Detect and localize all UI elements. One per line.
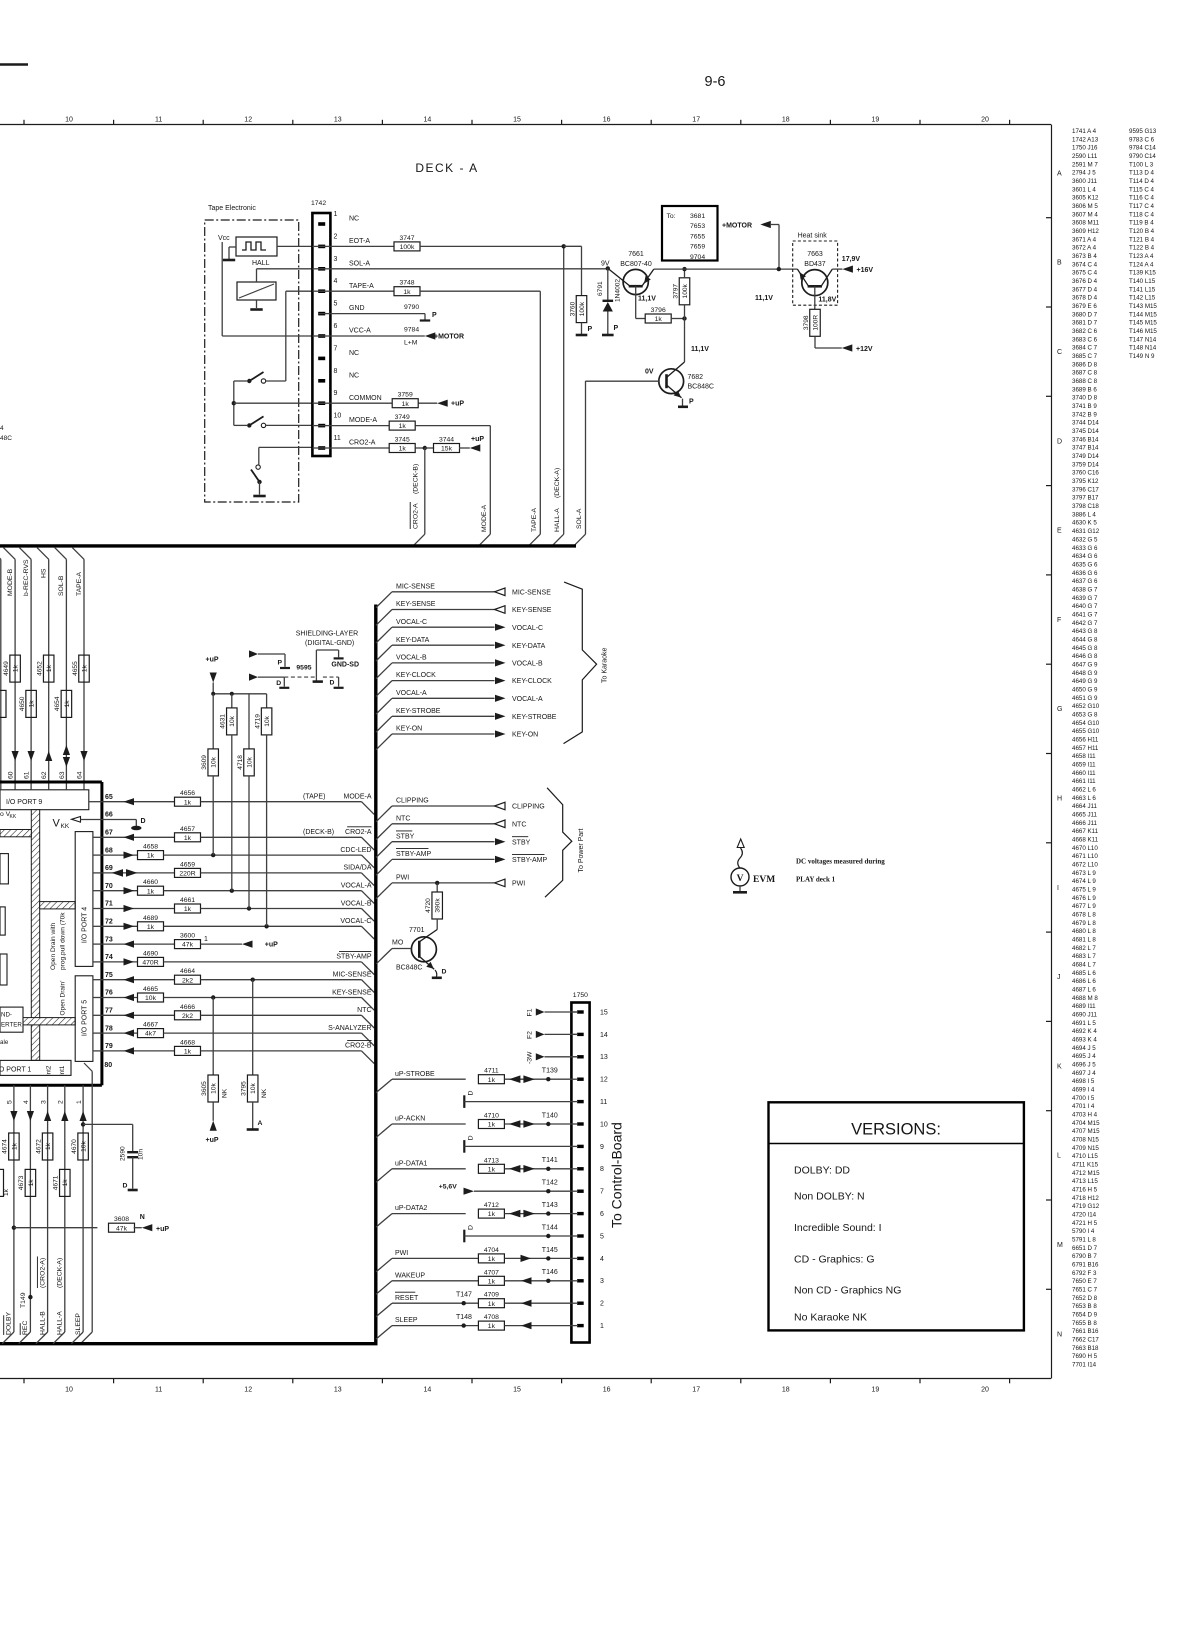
svg-text:10k: 10k [81, 1140, 88, 1151]
svg-text:4684 L 7: 4684 L 7 [1072, 962, 1096, 969]
svg-text:Incredible Sound: I: Incredible Sound: I [794, 1222, 882, 1234]
svg-text:T117 C 4: T117 C 4 [1129, 203, 1155, 210]
svg-text:3684 C 7: 3684 C 7 [1072, 345, 1098, 352]
svg-text:1k: 1k [488, 1166, 496, 1173]
svg-text:P: P [588, 326, 593, 333]
svg-text:3749 D14: 3749 D14 [1072, 453, 1099, 460]
svg-text:NK: NK [222, 1088, 229, 1098]
svg-text:ND-: ND- [1, 1012, 12, 1019]
svg-text:N: N [140, 1214, 145, 1221]
svg-text:1k: 1k [399, 423, 407, 430]
svg-text:3747: 3747 [399, 235, 414, 242]
svg-text:7661: 7661 [628, 251, 644, 258]
pin 67 interior stub [93, 836, 102, 838]
svg-text:T148: T148 [456, 1314, 472, 1321]
svg-text:TAPE-A: TAPE-A [349, 283, 374, 290]
svg-text:3747 B14: 3747 B14 [1072, 445, 1099, 452]
resistor 4667 on pin 78 [102, 1022, 164, 1038]
svg-text:P: P [614, 325, 619, 332]
svg-text:4710: 4710 [484, 1113, 499, 1120]
svg-text:PWI: PWI [512, 881, 525, 888]
svg-text:11: 11 [334, 435, 341, 442]
signal WAKEUP with resistor 4707 [376, 1269, 571, 1294]
arrow on b-REC-RVS [28, 751, 35, 761]
cut internal block 2 [0, 907, 5, 935]
svg-text:4690: 4690 [143, 950, 158, 957]
svg-text:COMMON: COMMON [349, 395, 382, 402]
pin 80 vertical already drawn; sixth wire handled above [0, 0, 1, 1]
svg-text:B: B [1057, 260, 1062, 267]
relay solenoid [237, 282, 276, 310]
resistor 4658 on pin 68 [102, 844, 164, 860]
svg-text:4720: 4720 [425, 898, 432, 913]
svg-text:T100 L 3: T100 L 3 [1129, 161, 1154, 168]
svg-text:1k: 1k [64, 700, 71, 708]
svg-text:3748: 3748 [399, 280, 414, 287]
svg-text:4656: 4656 [180, 790, 195, 797]
wire pin 67 to bus / label [201, 827, 375, 850]
svg-text:Open Drain with: Open Drain with [50, 922, 57, 970]
7701 emitter ground D [432, 969, 447, 978]
svg-text:3759 D14: 3759 D14 [1072, 461, 1099, 468]
wire EOT-A to 3760 [564, 246, 582, 295]
wire 7663 base to 3798 [814, 286, 816, 309]
svg-text:11,1V: 11,1V [638, 296, 656, 303]
svg-text:66: 66 [105, 812, 113, 819]
svg-text:7663: 7663 [807, 251, 823, 258]
resistor 4674 [2, 1133, 20, 1160]
svg-text:D: D [123, 1183, 128, 1190]
svg-text:1k: 1k [147, 924, 155, 931]
svg-text:9784 C14: 9784 C14 [1129, 145, 1156, 152]
svg-text:PWI: PWI [395, 1250, 408, 1257]
wire motor rail [654, 268, 798, 270]
wire pin 65 to bus / label [201, 794, 375, 815]
svg-text:4692 K 4: 4692 K 4 [1072, 1028, 1097, 1035]
svg-text:69: 69 [105, 865, 113, 872]
net label HALL-A [57, 1311, 64, 1335]
svg-text:3687 C 8: 3687 C 8 [1072, 370, 1098, 377]
junction SLEEP / RC [81, 1122, 85, 1126]
svg-text:1k: 1k [488, 1256, 496, 1263]
svg-text:3795: 3795 [240, 1081, 247, 1096]
svg-text:9595: 9595 [296, 665, 311, 672]
+16V arrow [832, 266, 873, 275]
svg-text:10k: 10k [145, 995, 157, 1002]
svg-text:KEY-SENSE: KEY-SENSE [396, 601, 436, 608]
svg-text:4698 I 5: 4698 I 5 [1072, 1078, 1095, 1085]
svg-text:4687 L 6: 4687 L 6 [1072, 987, 1096, 994]
svg-text:3606 M 5: 3606 M 5 [1072, 203, 1098, 210]
svg-text:VOCAL-C: VOCAL-C [512, 625, 543, 632]
resistor 3759 to +uP [330, 392, 464, 408]
svg-text:8: 8 [334, 368, 338, 375]
svg-text:3797: 3797 [672, 284, 679, 299]
svg-text:15: 15 [513, 1387, 521, 1394]
signal VOCAL-B to karaoke [376, 655, 543, 679]
label Open Drain' [60, 981, 67, 1016]
svg-text:4691 L 5: 4691 L 5 [1072, 1020, 1096, 1027]
svg-text:47k: 47k [116, 1225, 128, 1232]
arrow pin 67 [124, 834, 135, 841]
resistor cut on cut wire [0, 690, 6, 717]
svg-text:uP-DATA2: uP-DATA2 [395, 1205, 428, 1212]
svg-text:K: K [1057, 1063, 1062, 1070]
resistor 4655 on TAPE-A [72, 655, 90, 682]
svg-text:4712: 4712 [484, 1202, 499, 1209]
svg-text:4658 I11: 4658 I11 [1072, 753, 1096, 760]
net label (DECK-A) [57, 1258, 64, 1288]
svg-text:I: I [1057, 885, 1059, 892]
cut internal block 1 [0, 854, 8, 884]
svg-text:4635 G 6: 4635 G 6 [1072, 561, 1098, 568]
pin 66 wire to D stub [102, 818, 146, 830]
resistor 4657 on pin 67 [102, 826, 201, 842]
wire pin 68 to bus / label [164, 847, 375, 868]
svg-text:KEY-CLOCK: KEY-CLOCK [512, 678, 552, 685]
svg-text:I/O PORT 9: I/O PORT 9 [6, 799, 42, 806]
svg-text:100R: 100R [812, 315, 819, 331]
svg-text:BC848C: BC848C [396, 965, 422, 972]
signal F1 to pin 15 [527, 1008, 578, 1016]
svg-text:15: 15 [513, 117, 521, 124]
svg-text:4656 H11: 4656 H11 [1072, 736, 1099, 743]
+MOTOR feed arrow [722, 221, 779, 269]
svg-text:4713 L15: 4713 L15 [1072, 1178, 1098, 1185]
svg-text:4659 I11: 4659 I11 [1072, 761, 1096, 768]
svg-text:VOCAL-A: VOCAL-A [341, 883, 372, 890]
svg-text:Tape Electronic: Tape Electronic [208, 205, 256, 212]
svg-text:4716 H 5: 4716 H 5 [1072, 1187, 1098, 1194]
7682 emitter ground P [678, 399, 694, 407]
svg-text:3683 C 6: 3683 C 6 [1072, 336, 1098, 343]
junction pin 75 / 3795 [251, 978, 255, 982]
svg-text:4643 G 8: 4643 G 8 [1072, 628, 1098, 635]
svg-text:1: 1 [334, 211, 338, 218]
wire hall output to pin 2 EOT-A [277, 245, 312, 247]
svg-text:3607 M 4: 3607 M 4 [1072, 211, 1098, 218]
pin 74 interior stub [93, 961, 102, 963]
svg-text:390k: 390k [435, 898, 442, 913]
resistor 4689 on pin 72 [102, 915, 164, 931]
svg-text:HALL-A: HALL-A [554, 508, 561, 532]
wire Vcc to pin 6 VCC-A [222, 242, 312, 336]
svg-text:T122 B 4: T122 B 4 [1129, 245, 1155, 252]
svg-text:4649: 4649 [3, 661, 10, 676]
svg-text:4631: 4631 [220, 714, 227, 729]
svg-text:SHIELDING-LAYER: SHIELDING-LAYER [296, 631, 359, 638]
svg-text:Heat sink: Heat sink [798, 233, 828, 240]
arrow on pin 4 [27, 1111, 34, 1121]
title DECK - A [415, 161, 478, 175]
resistor 3608 to +uP [12, 1214, 170, 1233]
svg-text:1k: 1k [29, 700, 36, 708]
svg-text:4695 J 4: 4695 J 4 [1072, 1053, 1096, 1060]
svg-text:4677 L 9: 4677 L 9 [1072, 903, 1096, 910]
fragment text o VKK [0, 811, 17, 820]
svg-text:4670: 4670 [71, 1139, 78, 1154]
svg-text:CRO2-A: CRO2-A [413, 503, 420, 529]
svg-text:MODE-A: MODE-A [344, 794, 372, 801]
arrow pin 65 [124, 798, 135, 805]
wire pin 78 to bus / label [164, 1025, 375, 1046]
label To Control-Board [609, 1122, 625, 1228]
I/O PORT 9 box [0, 790, 89, 810]
svg-text:TAPE-A: TAPE-A [531, 507, 538, 532]
svg-text:4682 L 7: 4682 L 7 [1072, 945, 1096, 952]
svg-text:1: 1 [76, 1100, 83, 1104]
svg-text:67: 67 [105, 830, 113, 837]
signal +5.6V to pin 7 [439, 1180, 572, 1195]
svg-text:10k: 10k [211, 756, 218, 767]
svg-text:4708: 4708 [484, 1314, 499, 1321]
svg-text:1k: 1k [147, 853, 155, 860]
svg-text:1k: 1k [488, 1211, 496, 1218]
svg-text:VCC-A: VCC-A [349, 328, 371, 335]
svg-text:CLIPPING: CLIPPING [396, 798, 429, 805]
svg-text:+uP: +uP [471, 436, 484, 443]
bus top horizontal [0, 544, 576, 547]
svg-text:1k: 1k [488, 1077, 496, 1084]
signal uP-DATA2 with resistor 4712 [376, 1202, 571, 1227]
svg-text:+uP: +uP [206, 1137, 219, 1144]
svg-text:STBY-AMP: STBY-AMP [336, 954, 371, 961]
svg-text:3675 C 4: 3675 C 4 [1072, 270, 1098, 277]
svg-text:4680 L 8: 4680 L 8 [1072, 928, 1096, 935]
pin 75 interior stub [93, 979, 102, 981]
wire pin 3 SOL-A to relay [257, 269, 313, 282]
svg-text:3609: 3609 [201, 755, 208, 770]
To Karaoke bracket [564, 582, 609, 744]
svg-text:KEY-SENSE: KEY-SENSE [512, 607, 552, 614]
svg-text:2: 2 [600, 1301, 604, 1308]
hall sensor HALL [218, 235, 277, 267]
svg-text:T140 L15: T140 L15 [1129, 278, 1156, 285]
signal STBY-AMP to power part [376, 849, 547, 876]
connector 1750 internal wire segments [571, 1012, 578, 1326]
junction CRO2-A node [423, 446, 427, 450]
note DC voltages measured during PLAY deck 1 [796, 858, 885, 884]
svg-text:4685 L 6: 4685 L 6 [1072, 970, 1096, 977]
svg-text:KEY-CLOCK: KEY-CLOCK [396, 672, 436, 679]
svg-text:7662 C17: 7662 C17 [1072, 1337, 1099, 1344]
svg-text:72: 72 [105, 919, 113, 926]
arrow pin 69 [112, 869, 138, 877]
svg-text:6791 B16: 6791 B16 [1072, 1262, 1099, 1269]
svg-text:4707: 4707 [484, 1269, 499, 1276]
voltage 11,8V [818, 297, 836, 304]
svg-text:4718 H12: 4718 H12 [1072, 1195, 1099, 1202]
pin 66 number [105, 812, 113, 819]
svg-text:VOCAL-B: VOCAL-B [341, 900, 372, 907]
svg-text:KEY-DATA: KEY-DATA [396, 637, 430, 644]
jumper 9784 to +MOTOR [330, 327, 464, 347]
svg-text:4711: 4711 [484, 1068, 499, 1075]
svg-text:1k: 1k [184, 1049, 192, 1056]
svg-text:4646 G 8: 4646 G 8 [1072, 653, 1098, 660]
svg-text:BD437: BD437 [804, 261, 826, 268]
svg-text:17: 17 [692, 1387, 700, 1394]
svg-text:T147: T147 [456, 1292, 472, 1299]
svg-text:2794 J 5: 2794 J 5 [1072, 170, 1096, 177]
svg-text:3674 C 4: 3674 C 4 [1072, 261, 1098, 268]
resistor 4649 on MODE-B [3, 655, 21, 682]
svg-text:GND-SD: GND-SD [331, 662, 359, 669]
svg-text:1k: 1k [184, 835, 192, 842]
voltage 11,1V at 7682 collector [691, 346, 709, 353]
svg-text:19: 19 [872, 1387, 880, 1394]
junction PWI / 4720 [435, 881, 439, 885]
svg-text:+16V: +16V [857, 267, 874, 274]
svg-text:17,9V: 17,9V [842, 256, 861, 263]
svg-text:C: C [1057, 349, 1062, 356]
svg-text:uP-ACKN: uP-ACKN [395, 1116, 425, 1123]
resistor 4670 [71, 1133, 89, 1160]
svg-text:9595 G13: 9595 G13 [1129, 128, 1157, 135]
svg-text:3: 3 [334, 256, 338, 263]
svg-text:1750: 1750 [573, 992, 588, 999]
svg-text:3685 C 7: 3685 C 7 [1072, 353, 1098, 360]
resistor 4672 [35, 1133, 53, 1160]
svg-text:F1: F1 [527, 1008, 534, 1016]
svg-text:4719 G12: 4719 G12 [1072, 1203, 1100, 1210]
svg-text:4689 I11: 4689 I11 [1072, 1003, 1096, 1010]
shield link 9595 [284, 650, 359, 682]
svg-text:Vcc: Vcc [218, 235, 230, 242]
svg-text:4696 J 5: 4696 J 5 [1072, 1062, 1096, 1069]
junction 9V node [606, 266, 610, 270]
svg-text:14: 14 [424, 117, 432, 124]
pin 79 interior stub [93, 1050, 102, 1052]
svg-text:3671 A 4: 3671 A 4 [1072, 236, 1097, 243]
svg-text:5: 5 [7, 1100, 14, 1104]
svg-text:3745 D14: 3745 D14 [1072, 428, 1099, 435]
svg-text:MIC-SENSE: MIC-SENSE [333, 972, 372, 979]
svg-text:9: 9 [600, 1144, 604, 1151]
svg-text:4672: 4672 [35, 1139, 42, 1154]
svg-text:7655 B 8: 7655 B 8 [1072, 1320, 1097, 1327]
pin number 60 [8, 771, 15, 779]
svg-text:4700 I 5: 4700 I 5 [1072, 1095, 1095, 1102]
svg-text:1k: 1k [46, 664, 53, 672]
svg-text:CRO2-A: CRO2-A [345, 829, 372, 836]
svg-text:4640 G 7: 4640 G 7 [1072, 603, 1098, 610]
bus bottom horizontal [0, 1342, 378, 1345]
wire pin 73 to +uP [201, 936, 279, 949]
wire cut wire from bus to IC pin [0, 548, 1, 782]
svg-text:A: A [258, 1120, 263, 1127]
svg-text:12: 12 [244, 117, 252, 124]
svg-text:10: 10 [65, 117, 73, 124]
capacitor 2590 10n to D [83, 1124, 144, 1190]
svg-text:No Karaoke NK: No Karaoke NK [794, 1312, 867, 1324]
svg-text:15: 15 [600, 1009, 608, 1016]
svg-text:1k: 1k [3, 1188, 10, 1196]
svg-text:4720 I14: 4720 I14 [1072, 1212, 1097, 1219]
svg-text:1k: 1k [488, 1323, 496, 1330]
voltmeter EVM symbol [731, 839, 775, 892]
svg-text:P: P [432, 312, 437, 319]
resistor 3798 to +12V [803, 309, 873, 353]
VERSIONS table [769, 1102, 1024, 1330]
svg-text:10: 10 [334, 413, 342, 420]
svg-text:T144: T144 [542, 1224, 558, 1231]
signal uP-ACKN with resistor 4710 [376, 1112, 571, 1137]
svg-text:NTC: NTC [396, 815, 410, 822]
svg-text:4632 G 5: 4632 G 5 [1072, 536, 1098, 543]
signal CLIPPING to power part [376, 798, 545, 822]
resistor 4718 [237, 694, 255, 909]
svg-text:4694 J 5: 4694 J 5 [1072, 1045, 1096, 1052]
svg-text:E: E [1057, 528, 1062, 535]
svg-text:P: P [278, 660, 283, 667]
svg-text:1k: 1k [399, 446, 407, 453]
svg-text:4653 G 8: 4653 G 8 [1072, 711, 1098, 718]
svg-text:11: 11 [155, 1387, 162, 1394]
svg-text:CRO2-B: CRO2-B [345, 1043, 372, 1050]
svg-text:4637 G 6: 4637 G 6 [1072, 578, 1098, 585]
svg-text:1750 J16: 1750 J16 [1072, 145, 1098, 152]
svg-text:MO: MO [392, 940, 404, 947]
net label SLEEP [75, 1313, 82, 1335]
svg-text:4652 G10: 4652 G10 [1072, 703, 1100, 710]
IC pin stubs 60-64 inside [1, 784, 84, 790]
svg-text:KK: KK [61, 823, 70, 830]
svg-text:HALL-A: HALL-A [57, 1311, 64, 1335]
svg-text:DECK - A: DECK - A [415, 161, 478, 175]
signal STBY to power part [376, 831, 531, 858]
svg-text:100k: 100k [400, 244, 415, 251]
svg-text:4719: 4719 [254, 714, 261, 729]
pin 80 wire to bottom bus [81, 1062, 113, 1344]
wire pin 76 to bus / label [164, 989, 375, 1010]
svg-text:T141 L15: T141 L15 [1129, 286, 1156, 293]
hatched strip to I/O PORT 4 [40, 902, 75, 909]
arrow pin 71 [124, 905, 135, 912]
resistor 4665 on pin 76 [102, 986, 164, 1002]
wire TAPE-A from bus to IC pin 64 [72, 548, 84, 782]
svg-text:60: 60 [8, 771, 15, 779]
D stub pin 5 T144 [464, 1224, 571, 1242]
resistor 4666 on pin 77 [102, 1004, 201, 1020]
svg-text:1742 A13: 1742 A13 [1072, 136, 1099, 143]
svg-text:65: 65 [105, 794, 113, 801]
wire MODE-A to bus [479, 426, 491, 546]
transistor 7661 BC807-40 (PNP) [609, 251, 656, 303]
svg-text:+uP: +uP [206, 657, 219, 664]
svg-text:100k: 100k [682, 283, 689, 298]
svg-text:18: 18 [782, 1387, 790, 1394]
wire divider to 7682 collector [684, 319, 686, 363]
svg-text:BC807-40: BC807-40 [620, 261, 652, 268]
junction pin 76 / 3605 [211, 995, 215, 999]
svg-text:3601 L 4: 3601 L 4 [1072, 186, 1096, 193]
svg-text:T139: T139 [542, 1068, 558, 1075]
svg-text:3608 M11: 3608 M11 [1072, 220, 1100, 227]
svg-text:SOL-A: SOL-A [576, 508, 583, 529]
page number 9-6 [705, 74, 726, 90]
svg-text:4703 H 4: 4703 H 4 [1072, 1112, 1098, 1119]
svg-text:4670 L10: 4670 L10 [1072, 845, 1098, 852]
svg-text:VOCAL-C: VOCAL-C [340, 918, 371, 925]
svg-text:STBY-AMP: STBY-AMP [512, 857, 547, 864]
A/D converter block (cut) [0, 1007, 23, 1032]
signal uP-STROBE with resistor 4711 [376, 1068, 571, 1093]
wire pin 74 to bus / label [164, 951, 375, 974]
svg-text:T113 D 4: T113 D 4 [1129, 170, 1155, 177]
svg-text:75: 75 [105, 972, 113, 979]
svg-text:6790 B 7: 6790 B 7 [1072, 1253, 1097, 1260]
